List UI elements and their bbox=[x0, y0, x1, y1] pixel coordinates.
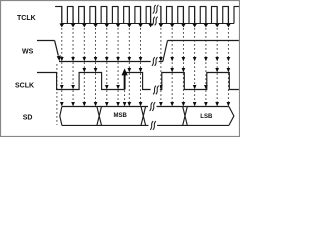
wire TCLK high segment 2 bbox=[67, 7, 74, 24]
wire TCLK high segment 10 bbox=[158, 6, 161, 8]
wire TCLK high segment 5 bbox=[101, 7, 108, 24]
wire TCLK high segment 6 bbox=[112, 7, 119, 24]
svg-text:SD: SD bbox=[23, 115, 33, 122]
wire TCLK falling edge 4 with arrow bbox=[93, 7, 98, 28]
wire TCLK high segment 9 bbox=[146, 7, 151, 24]
border frame bbox=[1, 1, 240, 137]
wire dashed sampling column 11 x=183.4 bbox=[182, 28, 186, 106]
wire WS high segment right bbox=[168, 40, 239, 42]
wire dashed sampling column 10 x=172.15 bbox=[170, 28, 174, 106]
wire TCLK high segment 13 bbox=[189, 7, 196, 24]
wire dashed sampling column 14 x=217.15 bbox=[215, 28, 219, 106]
wire TCLK high segment 12 bbox=[177, 7, 184, 24]
wire dashed sampling column 3 x=84.3 bbox=[82, 28, 86, 106]
wire SD bus outline bbox=[60, 107, 234, 126]
wire WS rising edge bbox=[163, 41, 168, 62]
break mark TCLK base bbox=[151, 16, 159, 26]
wire TCLK falling edge 11 with arrow bbox=[181, 7, 186, 28]
wire TCLK falling edge 16 with arrow bbox=[148, 7, 153, 28]
break mark SD top edge bbox=[150, 102, 156, 111]
wire dashed sampling column 15 x=228.4 bbox=[227, 28, 231, 106]
svg-text:MSB: MSB bbox=[114, 113, 128, 119]
wire TCLK high segment 16 bbox=[222, 7, 229, 24]
wire TCLK high segment 14 bbox=[200, 7, 207, 24]
wire SD bit-boundary crossover at x=99.2 bbox=[97, 107, 102, 126]
wire TCLK falling edge 7 with arrow bbox=[127, 7, 132, 28]
wire WS high segment left bbox=[37, 40, 55, 42]
wire TCLK falling edge 3 with arrow bbox=[82, 7, 87, 28]
wire dashed sampling column 12 x=194.65 bbox=[193, 28, 197, 106]
break mark WS low bbox=[151, 57, 159, 67]
wire dashed sampling column 7 x=129.3 bbox=[127, 28, 131, 106]
wire WS low segment bbox=[59, 61, 163, 63]
svg-text:WS: WS bbox=[22, 49, 34, 56]
wire dashed sampling column 1 x=61.8 bbox=[60, 28, 64, 106]
svg-text:SCLK: SCLK bbox=[15, 83, 34, 90]
wire SCLK waveform bbox=[37, 73, 239, 90]
wire dashed sampling column 6 x=118.05 bbox=[116, 28, 120, 106]
wire TCLK high segment 15 bbox=[211, 7, 218, 24]
wire dashed sampling column 2 x=73.05 bbox=[71, 28, 75, 106]
wire TCLK high segment 3 bbox=[78, 7, 85, 24]
wire TCLK falling edge 8 with arrow bbox=[138, 7, 143, 28]
wire TCLK falling edge 15 with arrow bbox=[226, 7, 231, 28]
break mark SCLK low bbox=[152, 85, 160, 95]
wire dashed sampling column 8 x=140.55 bbox=[139, 28, 143, 106]
wire WS falling edge with arrow bbox=[55, 41, 61, 62]
wire TCLK high segment 17 bbox=[234, 7, 240, 24]
wire TCLK high segment 8 bbox=[134, 7, 141, 24]
wire dashed frame-start reference below WS fall bbox=[56, 64, 58, 125]
wire TCLK falling edge 9 with arrow bbox=[159, 7, 164, 28]
wire TCLK falling edge 14 with arrow bbox=[215, 7, 220, 28]
wire SD bit-boundary crossover at x=185 bbox=[183, 107, 188, 126]
wire TCLK high segment 7 bbox=[123, 7, 130, 24]
wire TCLK falling edge 12 with arrow bbox=[192, 7, 197, 28]
wire TCLK falling edge 10 with arrow bbox=[170, 7, 175, 28]
wire dashed column below SCLK up-arrow to SD bbox=[123, 90, 127, 106]
wire TCLK falling edge 5 with arrow bbox=[104, 7, 109, 28]
wire SD bit-boundary crossover at x=143.3 bbox=[141, 107, 146, 126]
break mark SD bottom edge bbox=[150, 121, 156, 130]
wire dashed sampling column 9 x=160.9 bbox=[159, 28, 163, 106]
wire TCLK falling edge 2 with arrow bbox=[71, 7, 76, 28]
wire dashed sampling column 5 x=106.8 bbox=[105, 28, 109, 106]
break mark TCLK high bbox=[152, 4, 160, 14]
wire TCLK falling edge 1 with arrow bbox=[59, 7, 64, 28]
wire TCLK baseline bbox=[61, 23, 234, 25]
svg-text:TCLK: TCLK bbox=[17, 15, 36, 22]
wire TCLK high segment 1 bbox=[55, 6, 62, 8]
wire TCLK falling edge 6 with arrow bbox=[116, 7, 121, 28]
wire TCLK falling edge 13 with arrow bbox=[204, 7, 209, 28]
wire dashed sampling column 13 x=205.9 bbox=[204, 28, 208, 106]
wire dashed sampling column 4 x=95.55 bbox=[94, 28, 98, 106]
wire TCLK high segment 11 bbox=[166, 7, 173, 24]
svg-text:LSB: LSB bbox=[200, 114, 213, 120]
wire SCLK emphasized rising edge up-arrow bbox=[122, 68, 128, 89]
wire TCLK high segment 4 bbox=[89, 7, 96, 24]
